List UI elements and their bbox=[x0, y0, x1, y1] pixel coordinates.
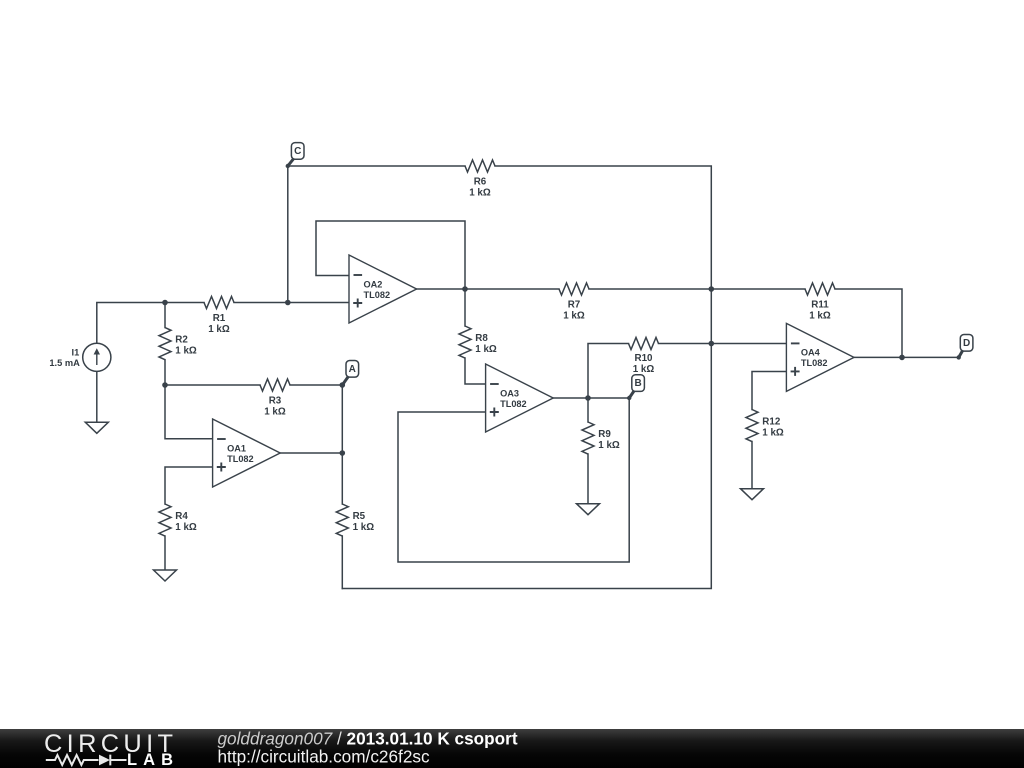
current source I1 bbox=[49, 343, 111, 371]
svg-text:R5: R5 bbox=[353, 511, 366, 522]
junction bbox=[340, 450, 346, 456]
op-amp OA1 bbox=[213, 419, 281, 487]
CircuitLab logo bbox=[44, 730, 173, 768]
wire bbox=[165, 384, 260, 386]
wire R8 bottom to OA3 minus bbox=[465, 358, 486, 384]
svg-text:R6: R6 bbox=[474, 176, 487, 187]
svg-text:1 kΩ: 1 kΩ bbox=[633, 364, 655, 375]
junction bbox=[462, 286, 468, 292]
junction bbox=[162, 300, 168, 306]
wire R10 right to OA4 minus bbox=[659, 343, 787, 345]
svg-text:B: B bbox=[634, 378, 641, 389]
wire node C riser bbox=[288, 166, 465, 303]
wire bbox=[165, 467, 213, 504]
resistor R6 bbox=[465, 160, 495, 198]
junction bbox=[899, 355, 905, 361]
junction bbox=[285, 300, 291, 306]
svg-text:OA3: OA3 bbox=[500, 388, 519, 398]
resistor R3 bbox=[260, 379, 290, 417]
resistor R8 bbox=[459, 326, 497, 358]
resistor R7 bbox=[559, 283, 589, 321]
wire OA4 output to node D bbox=[854, 356, 959, 358]
node C bbox=[286, 143, 304, 169]
junction bbox=[709, 341, 715, 347]
svg-text:R7: R7 bbox=[568, 299, 581, 310]
svg-text:I1: I1 bbox=[72, 347, 80, 357]
resistor R4 bbox=[159, 504, 197, 536]
svg-text:LAB: LAB bbox=[127, 751, 173, 768]
wire bbox=[341, 536, 343, 589]
junction bbox=[162, 382, 168, 388]
svg-text:1 kΩ: 1 kΩ bbox=[563, 310, 585, 321]
wire R10 left bbox=[588, 344, 629, 399]
ground bbox=[577, 504, 600, 515]
svg-text:R3: R3 bbox=[269, 395, 282, 406]
svg-text:TL082: TL082 bbox=[227, 454, 254, 464]
resistor R1 bbox=[204, 297, 234, 335]
wire bbox=[97, 303, 204, 345]
svg-text:TL082: TL082 bbox=[801, 358, 828, 368]
op-amp OA3 bbox=[486, 364, 554, 432]
svg-text:OA2: OA2 bbox=[364, 279, 383, 289]
wire R8 top bbox=[464, 289, 466, 326]
svg-text:1 kΩ: 1 kΩ bbox=[475, 344, 497, 355]
wire bbox=[96, 371, 98, 422]
wire OA2 output rail bbox=[417, 288, 559, 290]
wire bbox=[341, 385, 343, 504]
junction bbox=[585, 395, 591, 401]
wire OA2 feedback loop bbox=[316, 221, 465, 289]
svg-text:1 kΩ: 1 kΩ bbox=[469, 187, 491, 198]
wire bbox=[164, 536, 166, 570]
svg-text:R11: R11 bbox=[811, 299, 829, 310]
wire bbox=[164, 360, 166, 385]
svg-text:http://circuitlab.com/c26f2sc: http://circuitlab.com/c26f2sc bbox=[218, 747, 430, 767]
wire OA4 plus to R12 top bbox=[752, 372, 786, 410]
svg-text:R1: R1 bbox=[213, 313, 226, 324]
wire bbox=[290, 384, 342, 386]
svg-text:OA1: OA1 bbox=[227, 443, 246, 453]
svg-text:1 kΩ: 1 kΩ bbox=[264, 406, 286, 417]
node A bbox=[340, 361, 359, 388]
wire OA1 output bbox=[280, 452, 342, 454]
resistor R12 bbox=[746, 410, 784, 442]
svg-text:D: D bbox=[963, 338, 970, 349]
junction bbox=[709, 286, 715, 292]
wire bbox=[587, 398, 589, 422]
resistor R5 bbox=[336, 504, 374, 536]
svg-text:1 kΩ: 1 kΩ bbox=[598, 440, 620, 451]
svg-text:A: A bbox=[349, 364, 356, 375]
svg-text:R12: R12 bbox=[762, 417, 781, 428]
svg-text:1 kΩ: 1 kΩ bbox=[353, 522, 375, 533]
svg-text:1 kΩ: 1 kΩ bbox=[175, 522, 197, 533]
op-amp OA4 bbox=[786, 323, 854, 391]
wire bbox=[164, 303, 166, 328]
svg-text:TL082: TL082 bbox=[500, 399, 527, 409]
wire bbox=[587, 454, 589, 504]
op-amp OA2 bbox=[349, 255, 417, 323]
svg-text:TL082: TL082 bbox=[364, 290, 391, 300]
svg-text:OA4: OA4 bbox=[801, 348, 821, 358]
wire bbox=[234, 302, 349, 304]
svg-text:R10: R10 bbox=[635, 353, 654, 364]
resistor R9 bbox=[582, 422, 620, 454]
svg-text:R9: R9 bbox=[598, 429, 611, 440]
svg-text:golddragon007 / 2013.01.10 K c: golddragon007 / 2013.01.10 K csoport bbox=[218, 728, 518, 748]
svg-text:1 kΩ: 1 kΩ bbox=[809, 310, 831, 321]
svg-text:R8: R8 bbox=[475, 333, 488, 344]
wire OA3 output bbox=[553, 397, 629, 399]
svg-text:1.5 mA: 1.5 mA bbox=[49, 358, 80, 368]
svg-text:1 kΩ: 1 kΩ bbox=[175, 346, 197, 357]
wire OA3 feedback loop to plus input bbox=[398, 398, 629, 562]
node B bbox=[627, 375, 644, 400]
resistor R11 bbox=[805, 283, 835, 321]
wire OA1 minus input bbox=[165, 385, 213, 439]
svg-text:R2: R2 bbox=[175, 335, 188, 346]
resistor R2 bbox=[159, 328, 197, 360]
ground bbox=[741, 489, 764, 500]
ground bbox=[85, 422, 108, 433]
junction bbox=[340, 382, 346, 388]
wire bbox=[589, 288, 805, 290]
svg-text:1 kΩ: 1 kΩ bbox=[762, 428, 784, 439]
svg-text:1 kΩ: 1 kΩ bbox=[208, 324, 230, 335]
wire R11 right down to OA4 output bbox=[835, 289, 902, 357]
resistor R10 bbox=[629, 338, 659, 376]
svg-text:C: C bbox=[294, 146, 301, 157]
ground bbox=[154, 570, 177, 581]
wire R6 right / long vertical / bottom rail bbox=[342, 166, 711, 589]
node D bbox=[957, 335, 973, 360]
svg-text:R4: R4 bbox=[175, 511, 188, 522]
wire bbox=[751, 442, 753, 489]
